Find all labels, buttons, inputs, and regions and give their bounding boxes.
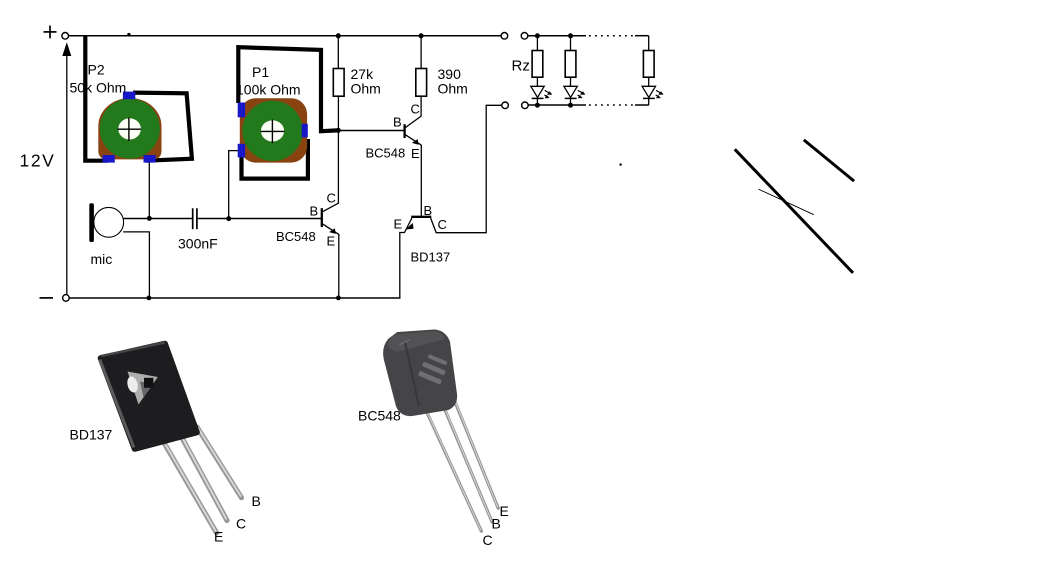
terminal node Q3 collector out <box>502 102 509 109</box>
photo BD137 legs <box>165 427 242 533</box>
wire mic lower terminal to ground <box>123 232 149 298</box>
resistor 390 <box>416 69 427 97</box>
photo BC548 body <box>385 332 455 415</box>
svg-text:C: C <box>438 217 447 232</box>
microphone mic <box>89 203 123 242</box>
svg-text:12V: 12V <box>20 151 56 171</box>
wire Q2 base from node <box>338 130 404 132</box>
plus symbol (supply +) <box>44 26 57 39</box>
potentiometer P1 trimmer body <box>238 98 308 162</box>
wire mic upper terminal to capacitor <box>124 218 192 220</box>
svg-text:Ohm: Ohm <box>438 81 468 97</box>
terminal node bottom-left <box>63 295 70 302</box>
svg-text:E: E <box>411 146 420 161</box>
svg-text:50k Ohm: 50k Ohm <box>70 80 127 96</box>
svg-text:BD137: BD137 <box>70 427 113 443</box>
svg-text:B: B <box>492 515 501 531</box>
photo BC548 legs <box>424 392 498 531</box>
wire 390 top <box>420 36 422 69</box>
wire 390 bottom to Q2 collector <box>420 96 422 116</box>
svg-text:Rz: Rz <box>512 58 530 75</box>
svg-text:P1: P1 <box>252 64 269 80</box>
transistor Q1 BC548 <box>322 203 339 298</box>
stray dot <box>619 163 622 166</box>
wire thick P1 upper loop (pad to wiper junction) <box>238 47 337 131</box>
node junction bottom rail mic <box>147 296 152 301</box>
svg-text:B: B <box>310 204 319 219</box>
wire LED array top rail <box>528 35 649 37</box>
terminal node LED bottom left <box>522 102 529 109</box>
potentiometer P2 trimmer body <box>98 92 161 163</box>
wire thick P2 to top rail <box>85 36 108 161</box>
stroke mark thin diagonal <box>758 189 813 215</box>
node junction bottom rail Q1 emitter <box>336 296 341 301</box>
svg-text:Ohm: Ohm <box>351 81 381 97</box>
svg-text:BC548: BC548 <box>358 408 401 424</box>
transistor Q3 BD137 <box>400 105 502 298</box>
stroke mark long diagonal <box>735 149 853 273</box>
node junction LED col2 bottom <box>568 103 573 108</box>
svg-text:E: E <box>214 528 223 544</box>
terminal node LED top left <box>521 33 528 40</box>
supply arrow 12V line <box>62 42 71 294</box>
wire LED array bottom rail <box>528 104 648 106</box>
node junction top rail 27k <box>336 33 341 38</box>
node small dot on top rail <box>127 33 130 36</box>
svg-text:BD137: BD137 <box>411 250 451 265</box>
wire top rail to 27k <box>337 36 339 69</box>
transistor Q2 BC548 <box>405 116 422 216</box>
minus symbol (supply -) <box>40 297 54 299</box>
node junction LED col2 top <box>568 33 573 38</box>
svg-text:C: C <box>236 516 246 532</box>
svg-text:E: E <box>327 233 336 248</box>
capacitor C1 300nF <box>193 208 197 229</box>
resistor Rz column 3 with LED <box>642 36 664 105</box>
node junction capacitor / P1 <box>226 216 231 221</box>
wire thick P1 lower loop <box>242 139 308 179</box>
svg-text:100k Ohm: 100k Ohm <box>236 82 301 98</box>
svg-text:E: E <box>500 503 509 519</box>
resistor Rz column 2 with LED <box>564 36 586 105</box>
resistor 27k <box>333 69 344 97</box>
svg-text:C: C <box>411 102 420 117</box>
wire cap junction up to P1 lower pad <box>229 151 238 219</box>
terminal node top rail right <box>501 33 508 40</box>
svg-text:BC548: BC548 <box>276 229 316 244</box>
wire thick P2 loop top pad to bottom-right pad <box>133 93 192 161</box>
node junction LED col1 top <box>535 33 540 38</box>
svg-text:300nF: 300nF <box>178 236 218 252</box>
svg-text:B: B <box>424 203 433 218</box>
wire capacitor to Q1 base <box>198 218 322 220</box>
terminal node top-left <box>62 33 69 40</box>
svg-text:C: C <box>483 532 493 548</box>
svg-text:P2: P2 <box>88 62 105 78</box>
svg-text:B: B <box>393 115 402 130</box>
svg-text:C: C <box>327 191 336 206</box>
wire 27k bottom to Q1 collector <box>337 96 339 203</box>
svg-text:BC548: BC548 <box>366 146 406 161</box>
photo BD137 body <box>100 343 197 449</box>
node junction mic / P2 wiper <box>147 216 152 221</box>
svg-text:B: B <box>252 493 261 509</box>
wire bottom rail <box>69 297 400 299</box>
node junction top rail 390 <box>419 33 424 38</box>
stroke mark short diagonal <box>804 140 854 181</box>
svg-text:E: E <box>394 217 403 232</box>
resistor Rz column 1 with LED <box>531 36 553 105</box>
wire top rail <box>69 35 501 37</box>
node junction P1 wiper / Q2 base <box>336 128 341 133</box>
node junction LED col1 bottom <box>535 103 540 108</box>
wire P2 wiper down to mic node <box>148 163 150 219</box>
svg-text:mic: mic <box>91 251 113 267</box>
